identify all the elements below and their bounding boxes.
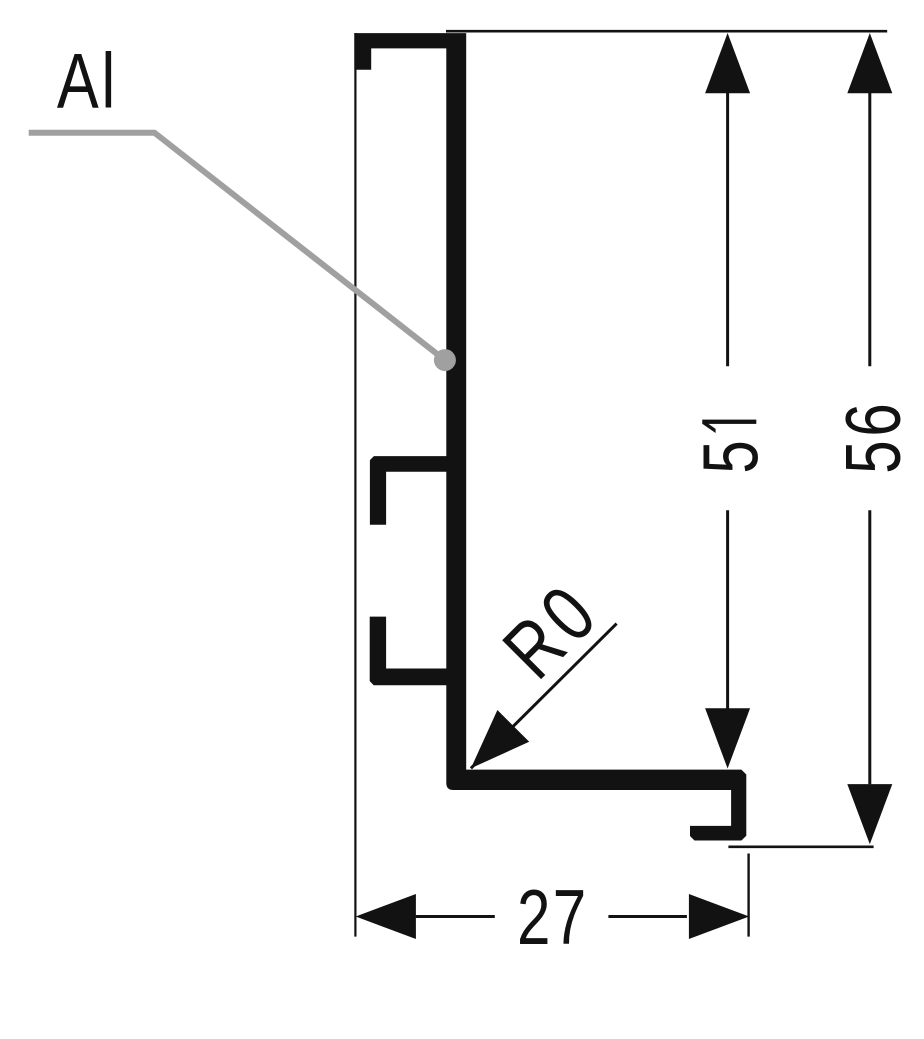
arrow 51 up	[705, 33, 750, 93]
label 51 digit 1 (custom DIN-style glyph, rotated)	[702, 420, 756, 424]
svg-text:R0: R0	[487, 565, 617, 695]
dimension line 56 lower segment	[868, 510, 871, 784]
arrow 56 down	[847, 784, 892, 844]
svg-text:27: 27	[517, 873, 588, 961]
arrow R0 diagonal	[471, 710, 529, 768]
dimension line 51 upper segment	[726, 93, 729, 366]
leader line R0	[471, 624, 617, 769]
extension line right (27 dim)	[747, 854, 749, 937]
dimension line 27 right segment	[608, 915, 687, 918]
dimension line 27 left segment	[416, 915, 495, 918]
svg-text:Al: Al	[57, 37, 118, 124]
leader line Al (gray)	[29, 133, 445, 360]
arrow 27 right	[689, 894, 749, 939]
extension line left (profile left edge, 27 dim)	[354, 33, 356, 937]
svg-text:5: 5	[687, 440, 775, 473]
aluminum profile cross-section	[354, 33, 746, 840]
extension line bottom right (56 dim)	[728, 845, 873, 848]
arrow 56 up	[847, 33, 892, 93]
svg-text:56: 56	[829, 399, 917, 473]
leader dot Al (gray)	[434, 349, 456, 371]
arrow 51 down	[705, 708, 750, 768]
dimension line 56 upper segment	[868, 93, 871, 366]
extension line top (56/51 dims)	[446, 30, 887, 33]
arrow 27 left	[356, 894, 416, 939]
dimension line 51 lower segment	[726, 510, 729, 708]
